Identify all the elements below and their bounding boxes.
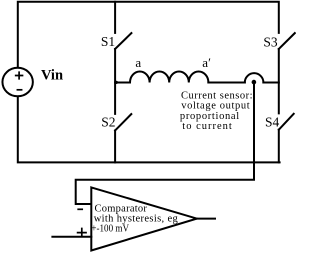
current sensor hump (245, 73, 264, 82)
voltage source - mark (17, 89, 21, 91)
voltage source Vin (2, 68, 32, 97)
wire: sense output down, across, to comparator inverting input (76, 82, 254, 204)
comparator U1 triangle (91, 187, 197, 250)
svg-text:a′: a′ (202, 55, 211, 70)
svg-text:Vin: Vin (41, 68, 63, 84)
inductor winding a-a' (115, 71, 208, 82)
label - (inverting input) (78, 208, 82, 210)
label + (non-inverting input) (78, 229, 86, 237)
svg-text:S4: S4 (265, 115, 280, 130)
wire: comparator non-inverting input (52, 236, 91, 238)
svg-text:S2: S2 (101, 115, 115, 130)
switch S2 blade (115, 114, 131, 130)
wire: middle branch mid (S1 to inductor tap to S2) (114, 49, 116, 114)
svg-text:+-100 mV: +-100 mV (91, 224, 129, 235)
switch S4 blade (279, 114, 294, 130)
switch S3 blade (279, 33, 295, 49)
node: inductor tap junction nub (115, 81, 118, 84)
wire: top rail with left riser and S3 upper lead (18, 2, 279, 67)
node: current sense junction dot (252, 80, 257, 85)
svg-text:S1: S1 (101, 34, 115, 49)
wire: middle branch upper (top rail to S1) (114, 2, 116, 33)
wire: comparator output (197, 218, 215, 220)
wire: left riser bottom + bottom rail (18, 97, 280, 162)
wire: right branch lower (S4 to bottom rail) (278, 130, 280, 163)
wire: current sensor to right branch (263, 82, 278, 84)
svg-text:a: a (135, 55, 141, 70)
wire: middle branch lower (S2 to bottom rail) (114, 131, 116, 163)
wire: right branch mid (S3 to sense tap to S4) (278, 49, 280, 113)
svg-text:to current: to current (182, 121, 232, 132)
switch S1 blade (115, 33, 131, 49)
wire: inductor to current sensor (208, 82, 244, 84)
svg-text:S3: S3 (263, 34, 278, 49)
voltage source + mark (16, 72, 23, 79)
